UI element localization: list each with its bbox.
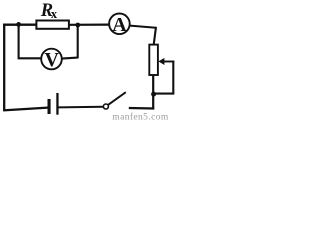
wire resistor to ammeter [70,24,109,26]
ammeter A [109,13,130,36]
label Rx [40,1,58,21]
wire battery to switch [58,106,103,109]
node junction dot rheostat bottom [151,92,156,97]
wire bottom-left horizontal [3,108,48,111]
wire rheostat top lead [154,27,156,45]
wire switch to bottom-right corner [129,107,154,110]
watermark [112,111,169,122]
battery positive plate (long thin) [56,93,58,115]
wire right vertical [172,61,174,94]
switch S lever [108,92,126,105]
battery negative plate (short thick) [48,99,51,114]
svg-text:V: V [44,49,59,71]
wire top-left horizontal [3,24,36,26]
svg-text:A: A [112,14,127,36]
svg-text:manfen5.com: manfen5.com [112,111,169,122]
rheostat R (slide resistor box) [149,45,158,75]
wire left vertical [3,24,5,111]
wire rheostat wiper line [160,61,174,63]
switch S pivot circle [103,104,108,109]
rheostat wiper arrowhead [158,58,164,65]
wire rheostat bottom lead [152,75,154,109]
wire voltmeter left leg [18,24,42,59]
node junction dot right of Rx [75,23,80,28]
node junction dot left of Rx [16,22,21,27]
voltmeter V [41,49,62,71]
wire voltmeter right leg [62,25,78,59]
resistor Rx box [36,21,69,29]
wire bottom-right horizontal to node [155,93,175,95]
svg-text:x: x [51,7,58,21]
wire ammeter to top-right corner [130,26,156,28]
